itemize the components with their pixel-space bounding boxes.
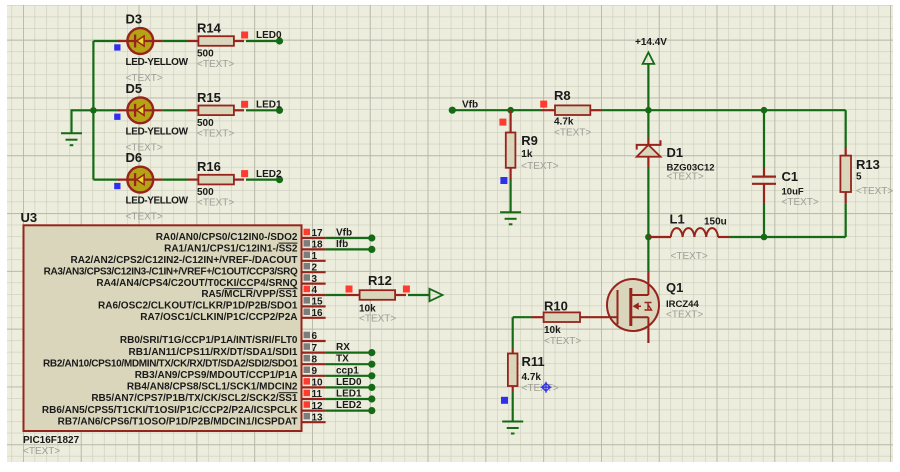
label R16 bbox=[197, 159, 221, 174]
wire LED D5 to resistor bbox=[162, 109, 198, 111]
pin 1 stub of U3 bbox=[302, 260, 326, 262]
pin name row RB3/AN9/CPS9/MDOUT/CCP1/P1A bbox=[135, 370, 298, 381]
svg-text:<TEXT>: <TEXT> bbox=[522, 383, 559, 394]
svg-text:Ifb: Ifb bbox=[336, 239, 348, 250]
svg-text:<TEXT>: <TEXT> bbox=[126, 212, 163, 223]
red square top pin of R9 bbox=[499, 119, 506, 126]
svg-text:<TEXT>: <TEXT> bbox=[667, 172, 704, 183]
svg-text:LED-YELLOW: LED-YELLOW bbox=[126, 196, 189, 207]
label &lt;TEXT&gt; of R12 bbox=[359, 314, 396, 325]
label LED-YELLOW of D3 bbox=[126, 57, 189, 68]
wire R10 left corner bbox=[513, 316, 532, 318]
net label LED2 bbox=[256, 169, 282, 180]
red square pin marker right of R15 bbox=[241, 101, 248, 108]
junction at C1 top bbox=[761, 107, 768, 114]
wire net LED0 with end dot bbox=[326, 384, 376, 391]
svg-text:2: 2 bbox=[312, 262, 318, 273]
svg-text:R15: R15 bbox=[197, 90, 221, 105]
label R13 bbox=[856, 157, 880, 172]
svg-text:<TEXT>: <TEXT> bbox=[671, 251, 708, 262]
svg-text:R16: R16 bbox=[197, 159, 221, 174]
pin 2 stub of U3 bbox=[302, 271, 326, 273]
junction at R9 top bbox=[507, 107, 514, 114]
wire LED1 net stub with end dot bbox=[246, 107, 283, 114]
wire L1 junction down to Q1 drain bbox=[647, 237, 649, 272]
label &lt;TEXT&gt; of D5 bbox=[126, 142, 163, 153]
wire R12 to arrow bbox=[408, 294, 429, 296]
label LED-YELLOW of D6 bbox=[126, 196, 189, 207]
junction at C1 bottom bbox=[761, 234, 768, 241]
LED D3 bbox=[118, 28, 162, 54]
ground (left of LED chain) bbox=[61, 133, 82, 145]
label 10k of R12 bbox=[359, 304, 376, 315]
svg-text:1k: 1k bbox=[521, 149, 533, 160]
pin number 12 bbox=[312, 401, 324, 412]
svg-text:RA1/AN1/CPS1/C12IN1-/SS2: RA1/AN1/CPS1/C12IN1-/SS2 bbox=[164, 244, 298, 255]
pin name row RA1/AN1/CPS1/C12IN1-/SS2 bbox=[164, 244, 298, 255]
svg-text:1: 1 bbox=[312, 251, 318, 262]
svg-text:U3: U3 bbox=[21, 210, 38, 225]
transistor Q1 (IRCZ44 NMOS) bbox=[607, 272, 659, 331]
blue square pin marker of D3 bbox=[114, 44, 120, 50]
label R9 bbox=[521, 133, 538, 148]
svg-text:R10: R10 bbox=[544, 299, 568, 314]
junction at D1 top bbox=[645, 107, 652, 114]
svg-text:RB0/SRI/T1G/CCP1/P1A/INT/SRI/F: RB0/SRI/T1G/CCP1/P1A/INT/SRI/FLT0 bbox=[120, 335, 298, 346]
pin 13 square marker bbox=[304, 413, 311, 420]
label C1 bbox=[782, 169, 799, 184]
svg-text:10k: 10k bbox=[544, 325, 561, 336]
resistor R8 bbox=[541, 105, 601, 115]
resistor R11 bbox=[508, 349, 518, 393]
pin 17 stub of U3 bbox=[302, 237, 326, 239]
net label TX bbox=[336, 354, 349, 365]
label R8 bbox=[554, 88, 571, 103]
pin number 6 bbox=[312, 331, 318, 342]
label +14.4V bbox=[635, 37, 667, 48]
svg-text:R12: R12 bbox=[368, 273, 392, 288]
pin number 1 bbox=[312, 251, 318, 262]
svg-text:LED2: LED2 bbox=[256, 169, 282, 180]
pin name row RB2/AN10/CPS10/MDMIN/TX/CK/RX/DT/SDA2/SDI2/SDO1 bbox=[43, 358, 298, 369]
label 10k of R10 bbox=[544, 325, 561, 336]
wire net ccp1 with end dot bbox=[326, 372, 376, 379]
label &lt;TEXT&gt; of R14 bbox=[197, 59, 234, 70]
pin 7 stub of U3 bbox=[302, 352, 326, 354]
pin number 10 bbox=[312, 378, 324, 389]
wire R8 to +14.4V junction bbox=[601, 109, 648, 111]
svg-text:500: 500 bbox=[197, 49, 214, 60]
wire rail junction to C1 bbox=[648, 109, 764, 111]
svg-text:RA7/OSC1/CLKIN/P1C/CCP2/P2A: RA7/OSC1/CLKIN/P1C/CCP2/P2A bbox=[140, 312, 297, 323]
svg-text:4: 4 bbox=[312, 285, 318, 296]
pin 16 square marker bbox=[304, 309, 311, 316]
svg-text:Q1: Q1 bbox=[666, 280, 683, 295]
svg-text:500: 500 bbox=[197, 118, 214, 129]
label 5 of R13 bbox=[856, 172, 862, 183]
svg-text:RA0/AN0/CPS0/C12IN0-/SDO2: RA0/AN0/CPS0/C12IN0-/SDO2 bbox=[156, 232, 298, 243]
blue square pin marker of D5 bbox=[114, 114, 120, 120]
wire rail corner down to R13 bbox=[845, 110, 847, 147]
svg-text:150u: 150u bbox=[704, 217, 727, 228]
svg-text:7: 7 bbox=[312, 343, 318, 354]
resistor R9 bbox=[506, 110, 516, 179]
pin name row RA7/OSC1/CLKIN/P1C/CCP2/P2A bbox=[140, 312, 297, 323]
red square pin marker right of R14 bbox=[241, 32, 248, 39]
pin name row RB1/AN11/CPS11/RX/DT/SDA1/SDI1 bbox=[129, 347, 298, 358]
svg-text:TX: TX bbox=[336, 354, 349, 365]
pin 6 square marker bbox=[304, 332, 311, 339]
label D5 bbox=[126, 81, 143, 96]
svg-text:R8: R8 bbox=[554, 88, 571, 103]
resistor R13 bbox=[840, 147, 851, 204]
svg-text:RA3/AN3/CPS3/C12IN3-/C1IN+/VRE: RA3/AN3/CPS3/C12IN3-/C1IN+/VREF+/C1OUT/C… bbox=[44, 266, 298, 277]
wire D1 to bottom junction bbox=[647, 168, 649, 237]
origin marker (blue crosshair) bbox=[541, 382, 552, 393]
pin 15 square marker bbox=[304, 297, 311, 304]
pin number 17 bbox=[312, 228, 324, 239]
pin name row RB4/AN8/CPS8/SCL1/SCK1/MDCIN2 bbox=[127, 382, 298, 393]
svg-text:RA6/OSC2/CLKOUT/CLKR/P1D/P2B/S: RA6/OSC2/CLKOUT/CLKR/P1D/P2B/SDO1 bbox=[98, 301, 298, 312]
svg-text:6: 6 bbox=[312, 331, 318, 342]
resistor R12 bbox=[346, 290, 406, 300]
wire bottom rail C1 to R13 bbox=[764, 236, 846, 238]
pin 12 stub of U3 bbox=[302, 410, 326, 412]
svg-text:12: 12 bbox=[312, 401, 324, 412]
svg-text:<TEXT>: <TEXT> bbox=[666, 310, 703, 321]
svg-text:Vfb: Vfb bbox=[336, 228, 352, 239]
wire down from R10 to R11 bbox=[512, 317, 514, 348]
pin number 16 bbox=[312, 308, 324, 319]
pin name row RB6/AN5/CPS5/T1CKI/T1OSI/P1C/CCP2/P2A/ICSPCLK bbox=[42, 405, 298, 416]
wire C1 to bottom junction bbox=[763, 203, 765, 237]
svg-text:17: 17 bbox=[312, 228, 324, 239]
svg-text:C1: C1 bbox=[782, 169, 799, 184]
resistor R16 bbox=[198, 175, 244, 185]
svg-text:D3: D3 bbox=[126, 12, 143, 27]
svg-text:RB1/AN11/CPS11/RX/DT/SDA1/SDI1: RB1/AN11/CPS11/RX/DT/SDA1/SDI1 bbox=[129, 347, 298, 358]
pin number 8 bbox=[312, 354, 318, 365]
svg-text:5: 5 bbox=[856, 172, 862, 183]
ground below R11 bbox=[502, 422, 523, 434]
wire L1 to C1 bottom junction bbox=[730, 236, 764, 238]
pin number 7 bbox=[312, 343, 318, 354]
label R12 bbox=[368, 273, 392, 288]
power +14.4V symbol bbox=[643, 52, 655, 110]
label &lt;TEXT&gt; of R9 bbox=[521, 161, 558, 172]
svg-text:D1: D1 bbox=[667, 145, 684, 160]
net label Ifb bbox=[336, 239, 348, 250]
pin 10 stub of U3 bbox=[302, 386, 326, 388]
wire net RX with end dot bbox=[326, 349, 376, 356]
wire rail down to C1 bbox=[763, 110, 765, 167]
wire from rail to LED D3 bbox=[93, 40, 120, 42]
blue square bottom pin of R11 bbox=[501, 397, 508, 404]
pin name row RA0/AN0/CPS0/C12IN0-/SDO2 bbox=[156, 232, 298, 243]
svg-text:LED1: LED1 bbox=[256, 100, 282, 111]
label &lt;TEXT&gt; of R8 bbox=[554, 127, 591, 138]
node Vfb terminal dot bbox=[449, 107, 456, 114]
pin 9 stub of U3 bbox=[302, 375, 326, 377]
net label RX bbox=[336, 342, 350, 353]
svg-text:<TEXT>: <TEXT> bbox=[554, 127, 591, 138]
wire net TX with end dot bbox=[326, 361, 376, 368]
pin number 2 bbox=[312, 262, 318, 273]
pin name row RA4/AN4/CPS4/C2OUT/T0CKI/CCP4/SRNQ bbox=[96, 278, 297, 289]
svg-text:RB2/AN10/CPS10/MDMIN/TX/CK/RX/: RB2/AN10/CPS10/MDMIN/TX/CK/RX/DT/SDA2/SD… bbox=[43, 358, 298, 369]
svg-text:R14: R14 bbox=[197, 21, 222, 36]
svg-text:<TEXT>: <TEXT> bbox=[544, 336, 581, 347]
svg-text:PIC16F1827: PIC16F1827 bbox=[23, 435, 80, 446]
pin 1 square marker bbox=[304, 252, 311, 259]
pin 11 square marker bbox=[304, 390, 311, 397]
red square right pin of R12 bbox=[403, 286, 410, 293]
red square left pin of R8 bbox=[540, 101, 547, 108]
pin name row RA2/AN2/CPS2/C12IN2-/C12IN+/VREF-/DACOUT bbox=[71, 255, 298, 266]
net label Vfb (top rail) bbox=[462, 100, 478, 111]
svg-text:4.7k: 4.7k bbox=[522, 372, 542, 383]
label R15 bbox=[197, 90, 221, 105]
svg-text:<TEXT>: <TEXT> bbox=[359, 314, 396, 325]
svg-text:RB6/AN5/CPS5/T1CKI/T1OSI/P1C/C: RB6/AN5/CPS5/T1CKI/T1OSI/P1C/CCP2/P2A/IC… bbox=[42, 405, 298, 416]
label &lt;TEXT&gt; of D1 bbox=[667, 172, 704, 183]
svg-text:13: 13 bbox=[312, 412, 324, 423]
net label LED1 bbox=[336, 389, 362, 400]
label 4.7k of R11 bbox=[522, 372, 542, 383]
pin 8 stub of U3 bbox=[302, 363, 326, 365]
svg-text:4.7k: 4.7k bbox=[554, 117, 574, 128]
wire R11 to ground bbox=[512, 392, 514, 422]
svg-text:RB7/AN6/CPS6/T1OSO/P1D/P2B/MDC: RB7/AN6/CPS6/T1OSO/P1D/P2B/MDCIN1/ICSPDA… bbox=[58, 416, 298, 427]
blue square bottom pin of R9 bbox=[500, 177, 507, 184]
red square left pin of R12 bbox=[346, 286, 353, 293]
svg-text:R13: R13 bbox=[856, 157, 880, 172]
svg-text:9: 9 bbox=[312, 366, 318, 377]
svg-text:500: 500 bbox=[197, 187, 214, 198]
svg-text:D5: D5 bbox=[126, 81, 143, 96]
svg-text:<TEXT>: <TEXT> bbox=[856, 186, 893, 197]
label R11 bbox=[522, 354, 545, 369]
svg-text:<TEXT>: <TEXT> bbox=[197, 198, 234, 209]
wire pin4 to R12 bbox=[326, 294, 346, 296]
ground below R9 bbox=[500, 212, 521, 224]
wire LED D6 to resistor bbox=[162, 179, 198, 181]
label &lt;TEXT&gt; of C1 bbox=[782, 197, 819, 208]
pin name row RB0/SRI/T1G/CCP1/P1A/INT/SRI/FLT0 bbox=[120, 335, 298, 346]
wire ground stub horizontal bbox=[72, 109, 94, 111]
wire left vertical rail from D3 row to D6 row bbox=[92, 41, 94, 180]
svg-text:RA5/MCLR/VPP/SS1: RA5/MCLR/VPP/SS1 bbox=[201, 289, 298, 300]
svg-text:L1: L1 bbox=[670, 212, 685, 227]
label R10 bbox=[544, 299, 568, 314]
wire R13 to bottom rail bbox=[845, 204, 847, 237]
resistor R10 bbox=[532, 312, 607, 322]
net label LED2 bbox=[336, 400, 362, 411]
svg-text:16: 16 bbox=[312, 308, 324, 319]
pin 7 square marker bbox=[304, 343, 311, 350]
svg-text:R11: R11 bbox=[522, 354, 545, 369]
svg-text:15: 15 bbox=[312, 297, 324, 308]
pin name row RA6/OSC2/CLKOUT/CLKR/P1D/P2B/SDO1 bbox=[98, 301, 298, 312]
pin 8 square marker bbox=[304, 355, 311, 362]
wire C1 junction to R13 corner bbox=[764, 109, 846, 111]
pin 4 square marker bbox=[304, 286, 311, 293]
svg-text:R9: R9 bbox=[521, 133, 538, 148]
pin 3 stub of U3 bbox=[302, 283, 326, 285]
svg-text:RB4/AN8/CPS8/SCL1/SCK1/MDCIN2: RB4/AN8/CPS8/SCL1/SCK1/MDCIN2 bbox=[127, 382, 298, 393]
pin 12 square marker bbox=[304, 401, 311, 408]
pin number 18 bbox=[312, 240, 324, 251]
svg-text:LED-YELLOW: LED-YELLOW bbox=[126, 57, 189, 68]
svg-text:Vfb: Vfb bbox=[462, 100, 478, 111]
svg-text:LED-YELLOW: LED-YELLOW bbox=[126, 126, 189, 137]
net label LED1 bbox=[256, 100, 282, 111]
svg-text:3: 3 bbox=[312, 274, 318, 285]
pin name row RB5/AN7/CPS7/P1B/TX/CK/SCL2/SCK2/SS1 bbox=[91, 393, 298, 404]
label 4.7k of R8 bbox=[554, 117, 574, 128]
label &lt;TEXT&gt; of R15 bbox=[197, 128, 234, 139]
wire top rail Vfb to R8 bbox=[452, 109, 541, 111]
svg-text:LED0: LED0 bbox=[256, 30, 282, 41]
wire R9 to ground bbox=[510, 179, 512, 212]
label &lt;TEXT&gt; of R10 bbox=[544, 336, 581, 347]
pin 16 stub of U3 bbox=[302, 317, 326, 319]
pin number 15 bbox=[312, 297, 324, 308]
label 150u of L1 bbox=[704, 217, 727, 228]
resistor R14 bbox=[198, 36, 244, 46]
label &lt;TEXT&gt; of U3 bbox=[23, 446, 60, 457]
svg-text:RB3/AN9/CPS9/MDOUT/CCP1/P1A: RB3/AN9/CPS9/MDOUT/CCP1/P1A bbox=[135, 370, 298, 381]
svg-text:<TEXT>: <TEXT> bbox=[197, 128, 234, 139]
svg-text:<TEXT>: <TEXT> bbox=[782, 197, 819, 208]
svg-text:IRCZ44: IRCZ44 bbox=[666, 299, 699, 310]
wire junction down to D1 bbox=[647, 110, 649, 138]
pin name row RA5/MCLR/VPP/SS1 bbox=[201, 289, 298, 300]
svg-text:18: 18 bbox=[312, 240, 324, 251]
wire from rail to LED D5 bbox=[93, 109, 120, 111]
label D3 bbox=[126, 12, 143, 27]
pin 18 stub of U3 bbox=[302, 248, 326, 250]
svg-text:D6: D6 bbox=[126, 150, 143, 165]
wire net LED1 with end dot bbox=[326, 395, 376, 402]
svg-text:<TEXT>: <TEXT> bbox=[521, 161, 558, 172]
label &lt;TEXT&gt; of D6 bbox=[126, 212, 163, 223]
net label Vfb bbox=[336, 228, 352, 239]
svg-text:RA4/AN4/CPS4/C2OUT/T0CKI/CCP4/: RA4/AN4/CPS4/C2OUT/T0CKI/CCP4/SRNQ bbox=[96, 278, 297, 289]
pin name row RA3/AN3/CPS3/C12IN3-/C1IN+/VREF+/C1OUT/CCP3/SRQ bbox=[44, 266, 298, 277]
label R14 bbox=[197, 21, 222, 36]
diode D1 (zener BZG03C12) bbox=[637, 138, 661, 168]
label 10uF of C1 bbox=[782, 187, 804, 198]
pin 2 square marker bbox=[304, 263, 311, 270]
svg-text:ccp1: ccp1 bbox=[336, 365, 359, 376]
wire from rail to LED D6 bbox=[93, 179, 120, 181]
label &lt;TEXT&gt; of R13 bbox=[856, 186, 893, 197]
wire LED0 net stub with end dot bbox=[246, 37, 283, 44]
label &lt;TEXT&gt; of Q1 bbox=[666, 310, 703, 321]
svg-text:LED1: LED1 bbox=[336, 389, 362, 400]
red square pin marker right of R16 bbox=[241, 170, 248, 177]
inductor L1 bbox=[648, 228, 730, 237]
wire ground stub vertical bbox=[70, 109, 72, 133]
label &lt;TEXT&gt; of L1 bbox=[671, 251, 708, 262]
label U3 bbox=[21, 210, 38, 225]
label &lt;TEXT&gt; of R11 bbox=[522, 383, 559, 394]
net label LED0 bbox=[256, 30, 282, 41]
pin number 13 bbox=[312, 412, 324, 423]
wire net LED2 with end dot bbox=[326, 407, 376, 414]
junction at L1 left / Q1 drain bbox=[645, 234, 652, 241]
pin number 11 bbox=[312, 389, 323, 400]
svg-text:LED2: LED2 bbox=[336, 400, 362, 411]
label D1 bbox=[667, 145, 684, 160]
wire net Vfb with end dot bbox=[326, 234, 376, 241]
pin 11 stub of U3 bbox=[302, 398, 326, 400]
pin 15 stub of U3 bbox=[302, 305, 326, 307]
blue square pin marker of D6 bbox=[114, 183, 120, 189]
svg-text:<TEXT>: <TEXT> bbox=[197, 59, 234, 70]
pin number 4 bbox=[312, 285, 318, 296]
pin number 9 bbox=[312, 366, 318, 377]
svg-text:+14.4V: +14.4V bbox=[635, 37, 667, 48]
junction at left rail / ground stub bbox=[90, 107, 97, 114]
svg-text:LED0: LED0 bbox=[336, 377, 362, 388]
label IRCZ44 of Q1 bbox=[666, 299, 699, 310]
label &lt;TEXT&gt; of R16 bbox=[197, 198, 234, 209]
pin 3 square marker bbox=[304, 274, 311, 281]
pin 4 stub of U3 bbox=[302, 294, 326, 296]
svg-text:8: 8 bbox=[312, 354, 318, 365]
label 1k of R9 bbox=[521, 149, 533, 160]
svg-text:11: 11 bbox=[312, 389, 323, 400]
resistor R15 bbox=[198, 106, 244, 116]
label &lt;TEXT&gt; of D3 bbox=[126, 73, 163, 84]
svg-text:RA2/AN2/CPS2/C12IN2-/C12IN+/VR: RA2/AN2/CPS2/C12IN2-/C12IN+/VREF-/DACOUT bbox=[71, 255, 298, 266]
label LED-YELLOW of D5 bbox=[126, 126, 189, 137]
pin 17 square marker bbox=[304, 229, 311, 236]
wire LED D3 to resistor bbox=[162, 40, 198, 42]
pin number 3 bbox=[312, 274, 318, 285]
wire net Ifb with end dot bbox=[326, 246, 376, 253]
net label LED0 bbox=[336, 377, 362, 388]
output arrow (open triangle) bbox=[430, 289, 443, 301]
label BZG03C12 of D1 bbox=[667, 163, 715, 174]
net label ccp1 bbox=[336, 365, 359, 376]
IC U3 PIC16F1827 body bbox=[24, 225, 302, 431]
wire LED2 net stub with end dot bbox=[246, 176, 283, 183]
LED D6 bbox=[118, 167, 162, 193]
svg-text:<TEXT>: <TEXT> bbox=[23, 446, 60, 457]
capacitor C1 bbox=[752, 167, 776, 203]
pin name row RB7/AN6/CPS6/T1OSO/P1D/P2B/MDCIN1/ICSPDAT bbox=[58, 416, 298, 427]
label D6 bbox=[126, 150, 143, 165]
pin 9 square marker bbox=[304, 367, 311, 374]
svg-text:RX: RX bbox=[336, 342, 350, 353]
LED D5 bbox=[118, 97, 162, 123]
pin 13 stub of U3 bbox=[302, 421, 326, 423]
pin 18 square marker bbox=[304, 240, 311, 247]
label 500 of R16 bbox=[197, 187, 214, 198]
Q1 source stub bbox=[647, 331, 649, 344]
label Q1 bbox=[666, 280, 683, 295]
label L1 bbox=[670, 212, 685, 227]
pin 10 square marker bbox=[304, 378, 311, 385]
label 500 of R14 bbox=[197, 49, 214, 60]
label PIC16F1827 bbox=[23, 435, 80, 446]
label 500 of R15 bbox=[197, 118, 214, 129]
pin 6 stub of U3 bbox=[302, 340, 326, 342]
svg-text:RB5/AN7/CPS7/P1B/TX/CK/SCL2/SC: RB5/AN7/CPS7/P1B/TX/CK/SCL2/SCK2/SS1 bbox=[91, 393, 298, 404]
